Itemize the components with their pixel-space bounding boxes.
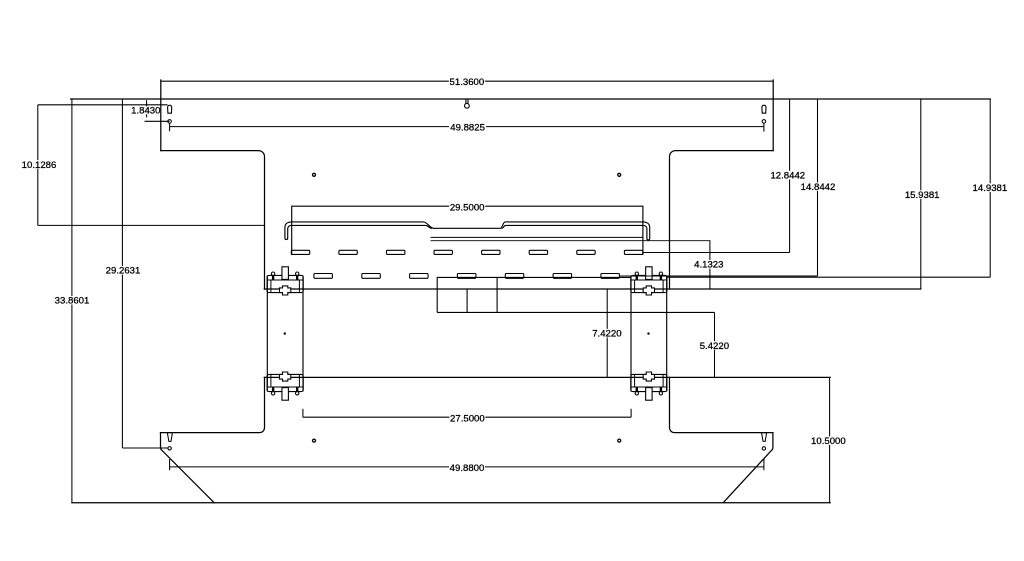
bottom band left outer — [161, 433, 215, 503]
svg-text:14.9381: 14.9381 — [973, 183, 1008, 194]
label 15.9381 — [905, 190, 940, 199]
left strap center dot — [284, 332, 286, 334]
clamp bottom-left — [267, 372, 303, 400]
clamp top-left — [267, 267, 303, 295]
upper slot 6 — [529, 250, 547, 254]
lower bar top long line — [264, 376, 830, 378]
49.8800 — [170, 466, 764, 468]
central bar bottom long line — [264, 288, 921, 290]
svg-text:7.4220: 7.4220 — [592, 329, 621, 340]
rail end verticals — [291, 206, 293, 254]
29.5000 — [292, 205, 643, 207]
29.2631 vertical — [121, 99, 123, 448]
left neck lower — [161, 377, 265, 432]
lower slot 3 — [410, 274, 429, 279]
keyhole circles + ticks — [168, 120, 766, 132]
49.8825 — [170, 126, 764, 128]
upper slot row — [291, 250, 643, 254]
12.8442 extension line — [643, 252, 790, 254]
upper slot 5 — [482, 250, 500, 254]
14.9381 — [989, 99, 991, 277]
KEYHOLES top band — [168, 100, 766, 114]
left top edge — [160, 80, 162, 151]
lines behind rail — [431, 236, 643, 238]
hole bottom-left — [313, 439, 316, 442]
keyhole circle top-right — [762, 120, 766, 124]
right step + neck edge — [670, 151, 774, 289]
lower slot 6 — [553, 274, 572, 279]
keyhole slot top-left — [168, 105, 172, 113]
label 14.8442 — [801, 182, 836, 191]
CENTRAL RAIL — [285, 206, 710, 254]
right hook — [643, 222, 650, 240]
clamp bottom-right — [631, 372, 667, 400]
ext line y=225.4 — [38, 224, 265, 226]
label 7.4220 — [592, 329, 621, 338]
lower slot 5 — [505, 274, 524, 279]
svg-text:10.5000: 10.5000 — [811, 436, 846, 447]
bottom long line — [72, 502, 830, 504]
tick below right circle — [763, 123, 765, 131]
label 5.4220 — [700, 341, 729, 350]
tick below bottom-right circle — [763, 459, 765, 470]
svg-text:29.2631: 29.2631 — [106, 266, 141, 277]
clamp top-right — [631, 267, 667, 295]
7.4220 — [606, 289, 608, 377]
right strap left edge — [630, 275, 632, 391]
middle bulb keyhole — [465, 103, 470, 108]
upper slot 8 — [624, 250, 642, 254]
LABELS (white bg + text) — [22, 77, 1008, 474]
33.8601 vertical — [71, 99, 73, 503]
keyhole circle top-left — [168, 120, 172, 124]
bottom wedge tabs + circles — [167, 433, 766, 471]
svg-text:27.5000: 27.5000 — [450, 413, 485, 424]
tick below left circle — [169, 123, 171, 131]
right strap right edge — [666, 275, 668, 391]
left ext line y=104.8 — [38, 104, 168, 106]
lower slot 1 — [314, 274, 333, 279]
bottom band right outer — [724, 433, 773, 503]
hole bottom-right — [618, 439, 621, 442]
svg-text:49.8800: 49.8800 — [450, 463, 485, 474]
label 10.5000 — [811, 436, 846, 445]
14.8442 — [817, 99, 819, 276]
10.1286 vertical — [37, 105, 39, 226]
svg-text:33.8601: 33.8601 — [55, 296, 90, 307]
tick below bottom-left circle — [169, 459, 171, 470]
lower slot 7 — [601, 274, 620, 279]
51.3600 — [161, 80, 773, 82]
upper slot 3 — [387, 250, 405, 254]
svg-text:15.9381: 15.9381 — [905, 190, 940, 201]
svg-text:29.5000: 29.5000 — [450, 202, 485, 213]
5.4220 — [714, 312, 716, 377]
lower slot 4 — [457, 274, 476, 279]
svg-text:10.1286: 10.1286 — [22, 160, 57, 171]
svg-text:4.1323: 4.1323 — [694, 260, 723, 271]
upper slot 7 — [577, 250, 595, 254]
lower slot row — [314, 274, 620, 279]
small plate holes — [313, 173, 621, 442]
1.8430 extension tick — [146, 100, 148, 117]
left strap left edge — [266, 275, 268, 391]
27.5000 left tick — [302, 409, 304, 417]
wedge tab bottom-left — [167, 433, 172, 442]
RAILS (straps) — [267, 275, 666, 391]
top edge with left/right dim extensions — [71, 98, 991, 100]
ext line for 14.9381 — [667, 276, 990, 278]
label 33.8601 — [55, 296, 90, 305]
left step + neck edge — [161, 151, 265, 289]
svg-text:51.3600: 51.3600 — [450, 77, 485, 88]
label 10.1286 — [22, 160, 57, 169]
4.1323 — [709, 241, 711, 289]
box divider left — [466, 289, 468, 312]
upper slot 1 (left foot) — [291, 250, 309, 254]
label 14.9381 — [972, 183, 1007, 192]
label 49.8800 — [449, 463, 485, 472]
27.5000 dim line — [303, 416, 631, 418]
BOX below rail — [437, 277, 714, 312]
hole top-left — [313, 173, 316, 176]
label 29.2631 — [106, 266, 141, 275]
box divider right — [496, 277, 498, 312]
label 4.1323 — [694, 260, 723, 269]
1.8430 dim line — [145, 120, 170, 122]
left hook — [285, 222, 292, 240]
label 51.3600 — [449, 77, 485, 86]
10.5000 — [829, 377, 831, 502]
ext line y=448 — [122, 447, 167, 449]
lower slot 2 — [362, 274, 381, 279]
15.9381 — [920, 99, 922, 289]
svg-text:14.8442: 14.8442 — [801, 182, 836, 193]
top inner line — [292, 225, 643, 228]
hole top-right — [618, 173, 621, 176]
keyhole slot top-right — [762, 105, 766, 113]
label 27.5000 — [449, 414, 485, 423]
wedge tab bottom-right — [762, 433, 767, 442]
label 12.8442 — [770, 171, 805, 180]
label 49.8825 — [449, 123, 486, 132]
svg-text:1.8430: 1.8430 — [131, 105, 160, 116]
right strap center dot — [647, 332, 649, 334]
label 1.8430 — [132, 106, 160, 114]
ext line for 14.8442 (crosses right clamp) — [619, 275, 817, 277]
12.8442 dim line — [789, 99, 791, 253]
top outer line with notch — [292, 222, 643, 228]
keyhole circle bottom-right — [762, 447, 765, 450]
right neck lower — [670, 377, 773, 432]
keyhole circle bottom-left — [168, 447, 171, 450]
box bottom edge (extends to 5.4220 extension) — [437, 311, 714, 313]
label 29.5000 — [449, 203, 485, 212]
right top edge — [772, 80, 774, 151]
upper slot 2 — [339, 250, 357, 254]
svg-text:49.8825: 49.8825 — [450, 123, 485, 134]
svg-text:5.4220: 5.4220 — [700, 341, 729, 352]
box left edge and top edge — [437, 277, 631, 312]
middle bulb keyhole neck — [466, 100, 468, 104]
left strap right edge — [302, 275, 304, 391]
DIMENSIONS — [38, 81, 990, 503]
upper slot 4 — [434, 250, 452, 254]
svg-text:12.8442: 12.8442 — [770, 171, 805, 182]
27.5000 right tick — [630, 409, 632, 417]
